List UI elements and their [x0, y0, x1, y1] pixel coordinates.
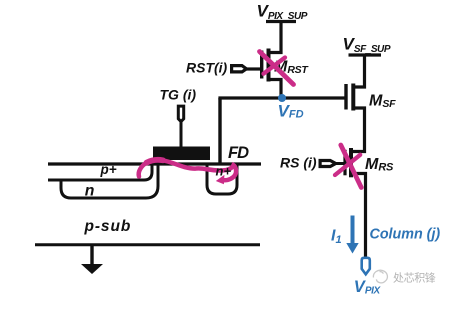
svg-text:处芯积锋: 处芯积锋 [393, 271, 436, 285]
svg-text:RST(i): RST(i) [186, 60, 228, 76]
X mark over M_RS (magenta) [341, 145, 362, 188]
svg-text:TG (i): TG (i) [160, 87, 197, 103]
transistor M_RS [343, 150, 346, 176]
supply rail V_PIX_SUP [266, 20, 296, 23]
n+ floating diffusion region [207, 164, 237, 194]
ground substrate arrow [90, 246, 93, 265]
svg-text:p-sub: p-sub [84, 218, 132, 235]
node V_FD [278, 94, 286, 102]
svg-text:n: n [85, 182, 95, 199]
RST input pin [232, 66, 247, 72]
wire supply to M_RST drain [268, 22, 281, 53]
output pin V_PIX [362, 258, 370, 275]
svg-text:RS (i): RS (i) [280, 155, 317, 171]
silicon surface line [48, 162, 261, 165]
wire TG pin to gate [180, 122, 183, 147]
transfer gate TG poly rectangle [153, 147, 210, 161]
n photodiode well [61, 164, 158, 198]
watermark logo [373, 270, 387, 283]
svg-text:n+: n+ [216, 164, 232, 179]
TG input pin [178, 106, 183, 122]
p+ pinning layer boundary [48, 164, 152, 180]
supply rail V_SF_SUP [349, 53, 382, 56]
p-sub bottom line [35, 243, 260, 246]
svg-text:Column (j): Column (j) [370, 227, 441, 243]
transistor M_SF [344, 84, 347, 110]
wire FD to VFD node [218, 98, 221, 163]
X mark over M_RST (magenta) [260, 52, 294, 85]
current arrow I1 (blue) [351, 216, 355, 245]
svg-text:p+: p+ [100, 162, 117, 177]
wire supply to M_SF drain [353, 55, 365, 87]
wire VFD horizontal [218, 96, 346, 99]
transistor M_RST [260, 51, 263, 79]
squiggle gate run thick part [147, 160, 164, 163]
charge transfer squiggle (magenta) [139, 160, 236, 180]
RS input pin [320, 161, 336, 167]
squiggle arrowhead [216, 175, 225, 184]
svg-text:FD: FD [228, 144, 249, 162]
